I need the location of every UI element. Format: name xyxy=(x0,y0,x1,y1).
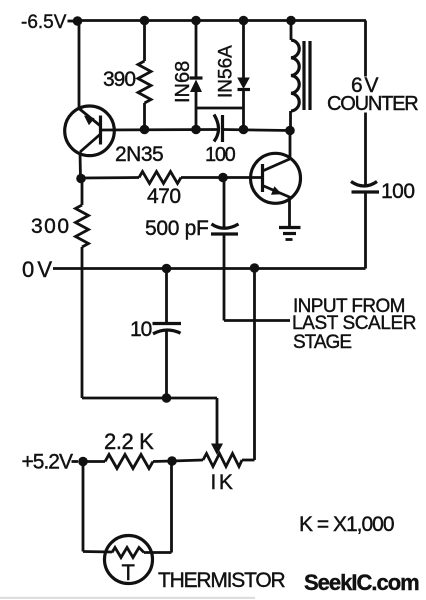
node +5.2V terminal xyxy=(22,451,88,474)
svg-text:10: 10 xyxy=(130,318,152,341)
wire pot to 0V rail xyxy=(242,268,255,460)
wire Q1 collector lead xyxy=(79,152,82,179)
label INPUT FROM LAST SCALER STAGE xyxy=(292,296,416,353)
junction dot 470/500pF/Q2 base xyxy=(218,173,228,183)
wire wiper row xyxy=(82,398,217,444)
svg-text:STAGE: STAGE xyxy=(293,332,351,353)
svg-text:IK: IK xyxy=(211,471,236,494)
junction dot wiper row xyxy=(162,393,172,403)
junction dot base row at 390 xyxy=(140,125,150,135)
label 6V COUNTER xyxy=(327,74,418,115)
svg-text:LAST SCALER: LAST SCALER xyxy=(292,313,416,334)
svg-text:COUNTER: COUNTER xyxy=(327,93,418,115)
resistor 390 xyxy=(103,21,151,131)
svg-text:300: 300 xyxy=(31,215,71,238)
capacitor 500pF xyxy=(145,178,239,241)
wire 0V rail xyxy=(53,267,366,270)
junction dot top rail at 390 xyxy=(140,16,150,26)
junction dot base row at 1N68 xyxy=(191,125,201,135)
svg-text:THERMISTOR: THERMISTOR xyxy=(158,569,285,592)
wire base row y130 xyxy=(101,130,291,131)
junction dot top rail at 1N56A xyxy=(239,16,249,26)
wire connector between diode branches xyxy=(196,107,244,110)
wire left column below 300 xyxy=(81,247,84,398)
capacitor 10 xyxy=(130,269,181,399)
wire T1 emitter to rail xyxy=(78,25,81,109)
svg-text:390: 390 xyxy=(103,68,135,91)
junction dot base row at 1N56A xyxy=(239,125,249,135)
junction dot 2.2K right xyxy=(167,456,177,466)
node -6.5V terminal xyxy=(21,12,82,33)
svg-text:500 pF: 500 pF xyxy=(145,217,209,240)
junction dot top rail at coil xyxy=(286,16,296,26)
svg-text:+5.2V: +5.2V xyxy=(22,451,73,474)
svg-text:2.2 K: 2.2 K xyxy=(104,429,154,454)
potentiometer 1K xyxy=(172,454,242,495)
svg-text:100: 100 xyxy=(205,144,236,166)
resistor 470 xyxy=(81,172,263,209)
wire Q2 collector to coil junction xyxy=(289,131,292,159)
resistor 300 xyxy=(31,179,89,248)
transformer core bars xyxy=(304,41,310,110)
inductor L1 coil xyxy=(291,21,300,131)
diode 1N56A xyxy=(216,21,251,131)
ground xyxy=(279,228,301,240)
svg-text:SeekIC.com: SeekIC.com xyxy=(304,570,419,595)
junction dot top rail at 1N68 xyxy=(191,16,201,26)
transistor Q1 2N35 xyxy=(65,106,164,166)
svg-text:IN68: IN68 xyxy=(172,61,194,103)
junction dot collector/470 xyxy=(76,174,86,184)
svg-text:100: 100 xyxy=(381,180,415,203)
diode 1N68 xyxy=(172,21,203,131)
capacitor 100 mid xyxy=(205,115,236,167)
svg-text:T: T xyxy=(122,560,135,585)
junction dot 0V at cap10 xyxy=(162,264,172,274)
svg-text:IN56A: IN56A xyxy=(216,45,237,98)
wire top supply rail xyxy=(78,19,367,22)
capacitor 100 right xyxy=(351,180,415,203)
scan edge strip xyxy=(0,597,255,599)
thermistor xyxy=(105,536,153,586)
svg-text:-6.5V: -6.5V xyxy=(21,12,67,33)
svg-text:K = X1,000: K = X1,000 xyxy=(299,513,394,536)
svg-text:0 V: 0 V xyxy=(22,257,52,282)
wire right branch vertical (6V counter) xyxy=(364,21,367,269)
wire Q2 emitter to ground xyxy=(288,198,291,228)
wire 500pF down to scaler pointer xyxy=(224,234,290,321)
junction dot 0V at pot branch xyxy=(250,263,260,273)
wire thermistor loop right xyxy=(144,461,172,553)
resistor 2.2K xyxy=(83,429,172,469)
transistor Q2 xyxy=(251,153,301,203)
arrow pot wiper xyxy=(211,444,223,456)
wire thermistor loop left xyxy=(83,462,112,553)
svg-text:470: 470 xyxy=(147,185,181,208)
junction dot base row at coil bottom xyxy=(285,126,295,136)
svg-text:2N35: 2N35 xyxy=(115,143,163,166)
